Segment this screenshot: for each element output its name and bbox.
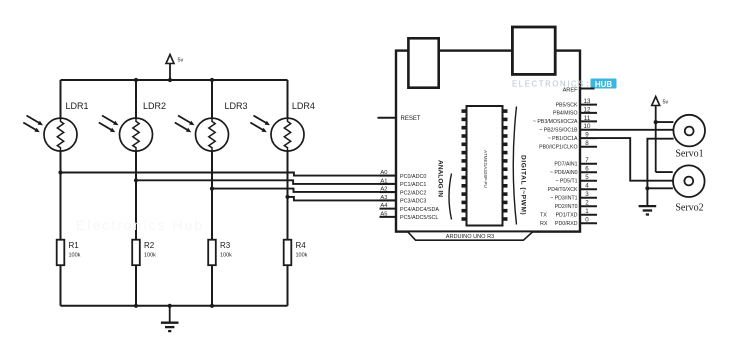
svg-text:ANALOG IN: ANALOG IN: [437, 160, 444, 197]
svg-text:HUB: HUB: [595, 80, 613, 89]
svg-text:A0: A0: [380, 170, 387, 176]
servo M2 hub: [684, 177, 693, 186]
junction bottom rail at ground tap: [168, 304, 172, 308]
junction LDR4/R4: [285, 195, 289, 199]
servo M1 hub: [685, 127, 694, 136]
resistor R2: [132, 240, 140, 266]
svg-text:PD0/RXD: PD0/RXD: [555, 221, 578, 227]
pin 5 stub: [580, 180, 597, 182]
svg-text:2: 2: [585, 200, 589, 207]
pin A3 stub: [380, 199, 397, 201]
LDR LDR2: [99, 116, 153, 152]
junction LDR3/R3: [210, 187, 214, 191]
wire node LDR4/R4 to A3: [288, 197, 397, 201]
power +5V left supply: [166, 55, 184, 81]
svg-text:5v: 5v: [178, 58, 184, 64]
LDR LDR4: [250, 116, 304, 152]
ic U2 left pins: [462, 109, 467, 221]
junction 5V Servo1: [654, 120, 658, 124]
svg-text:A1: A1: [380, 178, 387, 184]
wire Servo1 minus to ground rail: [647, 139, 673, 206]
junction bottom rail at R3: [210, 304, 214, 308]
svg-text:LDR1: LDR1: [66, 101, 89, 111]
svg-text:Servo1: Servo1: [675, 148, 703, 159]
svg-text:11: 11: [584, 115, 591, 122]
junction on top rail at 5V tap: [168, 78, 172, 82]
pin 6 stub: [580, 171, 597, 173]
wire R4 bottom: [287, 265, 289, 306]
svg-text:6: 6: [585, 166, 589, 173]
svg-text:R1: R1: [69, 241, 80, 250]
servo M2 body: [673, 165, 705, 197]
wire LDR4 column: [287, 80, 289, 240]
svg-text:PB5/SCK: PB5/SCK: [556, 102, 578, 108]
svg-text:10: 10: [584, 123, 591, 130]
ic U2 ATMEGA328P-PU body: [467, 106, 503, 226]
svg-text:5v: 5v: [663, 100, 669, 106]
brace digital group: [513, 107, 516, 225]
svg-text:A4: A4: [380, 203, 388, 209]
pin A1 stub: [380, 183, 397, 185]
wire LDR3 column: [211, 80, 213, 240]
junction on top rail at LDR2: [134, 78, 138, 82]
LDR LDR3: [175, 116, 229, 152]
svg-text:AREF: AREF: [563, 88, 579, 94]
svg-text:A3: A3: [380, 195, 387, 201]
junction bottom rail at R2: [134, 304, 138, 308]
pin A4 stub: [380, 208, 397, 210]
wire GND bottom rail: [61, 305, 288, 307]
pin 4 stub: [580, 188, 597, 190]
svg-text:PD7/AIN1: PD7/AIN1: [554, 162, 577, 168]
svg-text:RESET: RESET: [401, 116, 421, 122]
pin 2 stub: [580, 205, 597, 207]
svg-text:DIGITAL (~PWM): DIGITAL (~PWM): [520, 155, 527, 215]
pin A0 stub: [380, 175, 397, 177]
svg-text:PC0/ADC0: PC0/ADC0: [400, 174, 426, 180]
wire R1 bottom: [60, 265, 62, 306]
watermark electronics hub: [512, 79, 617, 89]
svg-text:8: 8: [585, 140, 589, 147]
junction LDR2/R2: [134, 178, 138, 182]
ground left: [161, 323, 179, 331]
svg-text::: :: [587, 80, 589, 89]
svg-text:A5: A5: [380, 211, 387, 217]
svg-text:3: 3: [585, 191, 589, 198]
svg-text:~ PB2/SS/OC1B: ~ PB2/SS/OC1B: [539, 128, 578, 134]
svg-text:LDR2: LDR2: [143, 101, 166, 111]
power +5V right supply: [652, 97, 669, 173]
svg-text:R4: R4: [296, 241, 307, 250]
svg-text:ARDUINO UNO R3: ARDUINO UNO R3: [446, 234, 494, 240]
svg-text:100k: 100k: [296, 253, 308, 259]
wire Servo2 minus: [647, 187, 673, 189]
arduino footer trapezoid: [408, 232, 533, 241]
svg-text:100k: 100k: [144, 253, 156, 259]
svg-text:~ PD5/T1: ~ PD5/T1: [555, 179, 577, 185]
pin 10 stub: [580, 129, 597, 131]
svg-text:R3: R3: [220, 241, 231, 250]
pin A2 stub: [380, 191, 397, 193]
svg-text:12: 12: [584, 106, 591, 113]
svg-text:7: 7: [585, 157, 589, 164]
svg-text:PB0/ICP1/CLKO: PB0/ICP1/CLKO: [539, 145, 577, 151]
svg-text:PD2/INT0: PD2/INT0: [555, 204, 578, 210]
wire pin10 to Servo1 signal: [597, 129, 673, 131]
svg-text:Electronics Hub: Electronics Hub: [76, 217, 204, 233]
arduino power jack: [512, 27, 555, 74]
svg-text:RX: RX: [540, 221, 548, 227]
wire pin9 to Servo2 signal: [597, 138, 673, 181]
ground right: [639, 206, 657, 214]
wire node LDR2/R2 to A1: [136, 180, 396, 184]
pin 11 stub: [580, 120, 597, 122]
wire +5V to Servo2 plus: [656, 171, 673, 173]
svg-text:5: 5: [585, 174, 589, 181]
wire R2 bottom: [135, 265, 137, 306]
wire R3 bottom: [211, 265, 213, 306]
resistor R3: [208, 240, 216, 266]
pin 3 stub: [580, 197, 597, 199]
wire node LDR3/R3 to A2: [212, 189, 396, 192]
svg-text:PC1/ADC1: PC1/ADC1: [400, 182, 426, 188]
resistor R4: [284, 240, 292, 266]
pin 13 stub: [580, 104, 597, 106]
svg-text:~ PD3/INT1: ~ PD3/INT1: [550, 196, 577, 202]
pin A5 stub: [380, 216, 397, 218]
svg-text:TX: TX: [540, 213, 547, 219]
pin AREF stub: [580, 88, 595, 90]
junction ground Servo2: [645, 186, 649, 190]
arduino USB connector: [408, 38, 438, 87]
pin 9 stub: [580, 137, 597, 139]
svg-text:Servo2: Servo2: [675, 203, 703, 214]
wire +5V top rail: [61, 79, 288, 81]
ic U2 right pins: [503, 109, 508, 221]
svg-text:100k: 100k: [220, 253, 232, 259]
svg-text:~ PB3/MOSI/OC2A: ~ PB3/MOSI/OC2A: [533, 119, 578, 125]
svg-text:PB4/MISO: PB4/MISO: [553, 111, 578, 117]
svg-text:A2: A2: [380, 187, 387, 193]
wire node LDR1/R1 to A0: [61, 173, 397, 176]
svg-text:13: 13: [584, 98, 591, 105]
servo M1 body: [673, 115, 705, 147]
svg-text:~ PD6/AIN0: ~ PD6/AIN0: [550, 170, 578, 176]
pin 8 stub: [580, 146, 597, 148]
pin 0 stub: [580, 222, 597, 224]
pin 1 stub: [580, 214, 597, 216]
svg-text:PC5/ADC5/SCL: PC5/ADC5/SCL: [400, 215, 438, 221]
svg-text:LDR4: LDR4: [292, 101, 315, 111]
arduino U1 body: [396, 51, 580, 232]
svg-text:0: 0: [585, 217, 589, 224]
wire +5V to Servo1 plus: [656, 121, 674, 123]
svg-text:PC4/ADC4/SDA: PC4/ADC4/SDA: [400, 207, 439, 213]
junction LDR1/R1: [58, 170, 62, 174]
wire LDR2 column: [135, 80, 137, 240]
LDR LDR1: [23, 116, 77, 152]
svg-text:4: 4: [585, 183, 589, 190]
resistor R1: [57, 240, 65, 266]
svg-text:9: 9: [585, 132, 589, 139]
pin 12 stub: [580, 112, 597, 114]
svg-text:100k: 100k: [69, 253, 81, 259]
pin RESET stub: [378, 117, 397, 119]
junction on top rail at LDR3: [210, 78, 214, 82]
svg-text:PC2/ADC2: PC2/ADC2: [400, 190, 426, 196]
brace analog group: [449, 174, 452, 220]
svg-text:PC3/ADC3: PC3/ADC3: [400, 199, 426, 205]
svg-text:ATMEGA328P-PU: ATMEGA328P-PU: [483, 150, 488, 188]
svg-text:PD1/TXD: PD1/TXD: [556, 213, 578, 219]
svg-text:1: 1: [585, 208, 589, 215]
pin 7 stub: [580, 163, 597, 165]
svg-text:~ PB1/OC1A: ~ PB1/OC1A: [548, 136, 578, 142]
svg-text:R2: R2: [144, 241, 155, 250]
svg-text:LDR3: LDR3: [225, 101, 248, 111]
wire ground stem: [169, 306, 171, 323]
wire LDR1 column: [60, 80, 62, 240]
svg-text:PD4/T0/XCK: PD4/T0/XCK: [548, 187, 578, 193]
